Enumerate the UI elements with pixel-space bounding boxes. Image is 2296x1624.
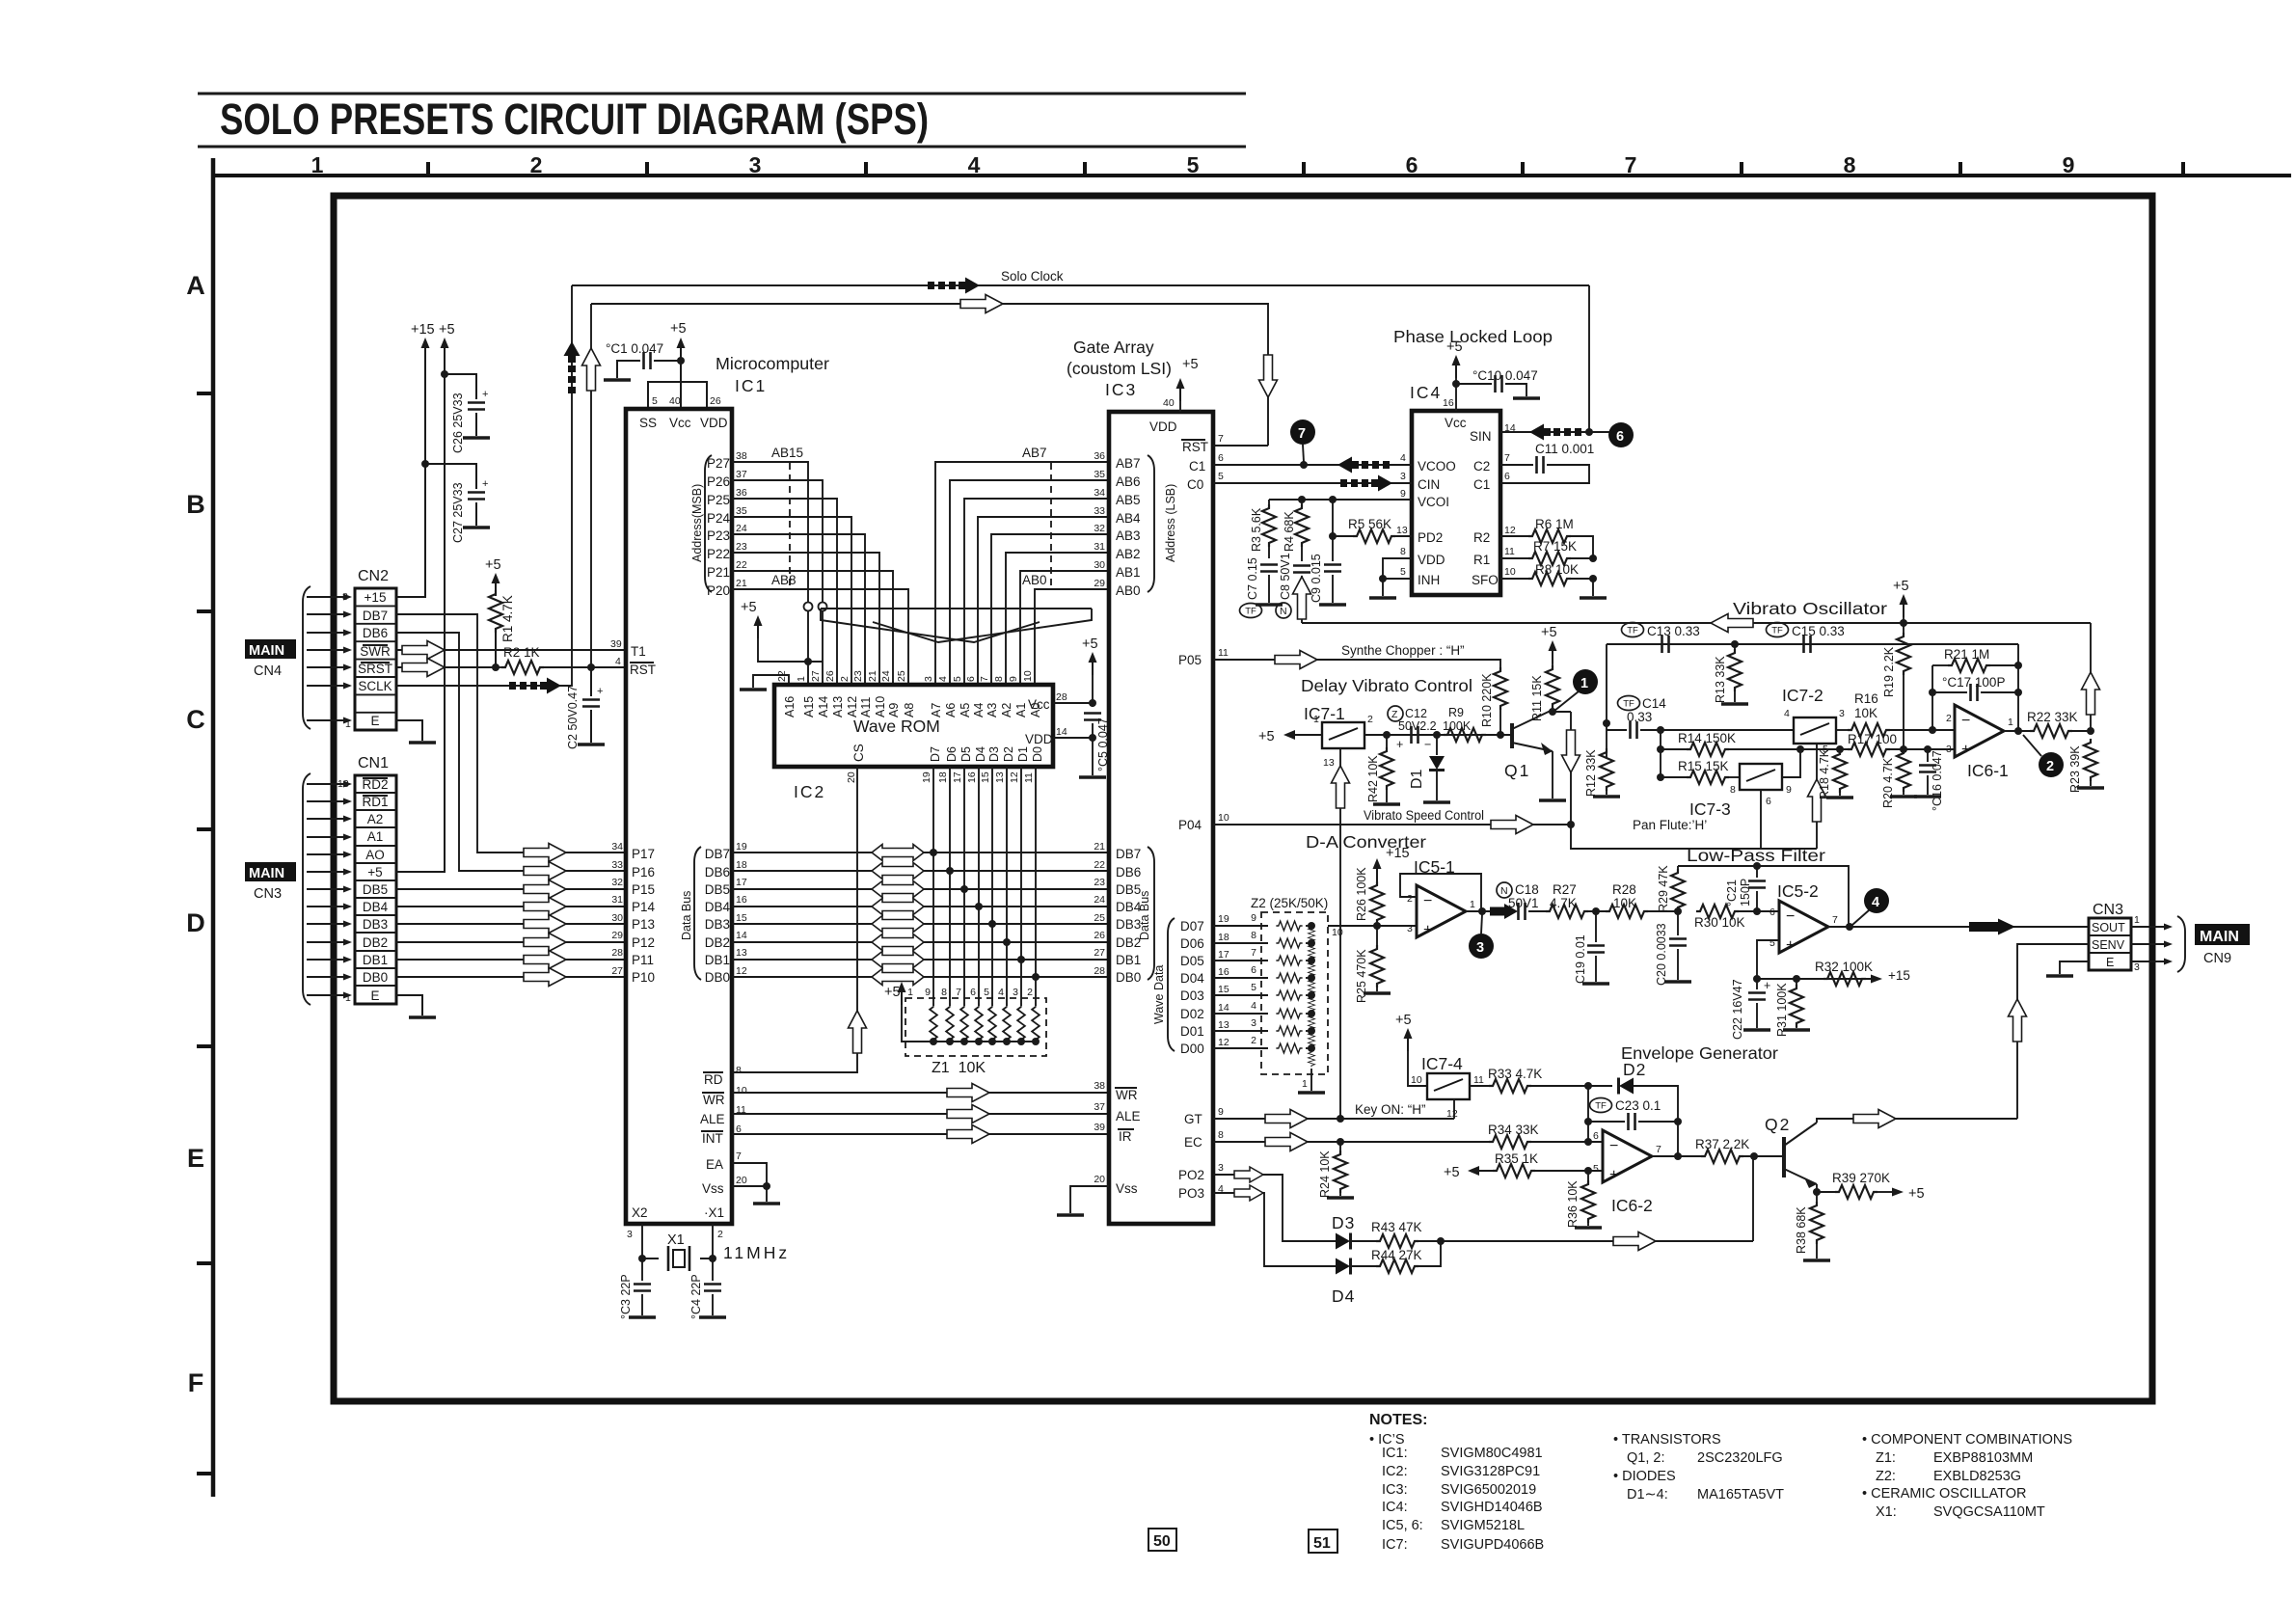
bracket around IC3 DB labels: [1148, 847, 1154, 980]
svg-text:5: 5: [1400, 566, 1406, 578]
MAIN CN3 tag: [245, 862, 296, 881]
left border tick marks: [197, 393, 213, 1474]
bold dashed arrow on solo clock: [928, 278, 980, 294]
svg-text:CN4: CN4: [254, 663, 282, 679]
capacitor C4 22P: [712, 1259, 714, 1281]
svg-text:26: 26: [710, 395, 721, 407]
svg-text:A: A: [186, 271, 205, 300]
svg-text:51: 51: [1313, 1535, 1331, 1552]
svg-text:P10: P10: [632, 970, 655, 985]
svg-text:2SC2320LFG: 2SC2320LFG: [1697, 1450, 1783, 1466]
crystal X1: [668, 1246, 689, 1271]
svg-text:6: 6: [965, 676, 977, 682]
svg-text:C15 0.33: C15 0.33: [1792, 624, 1845, 638]
svg-text:D02: D02: [1180, 1007, 1204, 1021]
svg-text:DB5: DB5: [363, 882, 388, 897]
svg-text:6: 6: [1406, 152, 1418, 177]
SENV return column: [2017, 944, 2089, 1119]
Q2 collector wire to SENV column: [1817, 1119, 2017, 1123]
svg-text:+: +: [1764, 979, 1770, 992]
low-pass feedback top wire: [1678, 866, 1849, 927]
svg-text:11: 11: [1218, 647, 1229, 659]
svg-text:35: 35: [736, 505, 747, 517]
IC3 body: [1109, 412, 1213, 1224]
svg-text:+: +: [482, 389, 488, 400]
svg-text:P24: P24: [707, 511, 731, 526]
svg-text:4: 4: [937, 676, 949, 682]
N mark C18: [1497, 882, 1512, 898]
wire RST line up to shared reset rail: [590, 304, 592, 667]
open circle jumpers on A15/A14 columns: [804, 603, 813, 611]
svg-text:RD1: RD1: [362, 795, 388, 809]
hollow arrow on P05 line: [1275, 651, 1317, 669]
svg-text:DB4: DB4: [705, 900, 731, 914]
svg-text:DB0: DB0: [363, 970, 388, 985]
wire ALE line IC1-IC3: [732, 1113, 1109, 1115]
svg-text:9: 9: [2063, 152, 2075, 177]
EA/Vss tie-off wires: [732, 1163, 767, 1202]
ROM bottom pin labels D7-D0: [929, 746, 1044, 762]
svg-text:R16: R16: [1854, 691, 1878, 706]
CN3 connector box: [2089, 918, 2131, 970]
svg-text:IC5-2: IC5-2: [1777, 881, 1819, 901]
svg-text:DB0: DB0: [1116, 970, 1141, 985]
svg-text:6: 6: [1769, 907, 1775, 918]
resistor R12 33K: [1600, 748, 1613, 791]
svg-text:6: 6: [1593, 1130, 1599, 1142]
svg-text:23: 23: [736, 541, 747, 553]
svg-text:15: 15: [1218, 984, 1229, 995]
wire X2 to crystal: [642, 1224, 659, 1259]
wire IC7-1 pin2 to Q1 base: [1364, 734, 1512, 736]
svg-text:R36 10K: R36 10K: [1566, 1180, 1580, 1228]
page number 50: [1148, 1529, 1176, 1551]
svg-text:R9: R9: [1448, 706, 1464, 719]
resistor R1 4.7K: [495, 590, 497, 594]
svg-text:11: 11: [1473, 1074, 1484, 1086]
svg-text:°C4 22P: °C4 22P: [689, 1274, 703, 1319]
svg-text:−: −: [1961, 713, 1970, 729]
svg-text:°C16 0.047: °C16 0.047: [1931, 750, 1944, 811]
svg-text:D06: D06: [1180, 936, 1204, 951]
svg-text:34: 34: [1094, 487, 1105, 499]
CN2 left bracket: [303, 586, 311, 729]
solo clock rail drop to SIN: [1588, 285, 1590, 432]
svg-text:+: +: [1609, 1167, 1618, 1183]
svg-text:5: 5: [984, 987, 989, 998]
svg-text:DB6: DB6: [705, 865, 730, 880]
svg-text:Delay Vibrato Control: Delay Vibrato Control: [1301, 676, 1472, 695]
svg-text:DB1: DB1: [363, 953, 388, 967]
svg-text:SENV: SENV: [2092, 938, 2125, 952]
svg-text:37: 37: [1094, 1101, 1105, 1113]
svg-text:IC2: IC2: [794, 782, 825, 801]
svg-text:VDD: VDD: [1418, 553, 1445, 567]
svg-text:16: 16: [1218, 966, 1229, 978]
wire vibrato feedback top line: [1302, 622, 2091, 624]
svg-text:Z2:: Z2:: [1876, 1469, 1896, 1484]
diode D1: [1436, 735, 1438, 755]
svg-text:PO2: PO2: [1178, 1168, 1204, 1182]
svg-text:SVIGM80C4981: SVIGM80C4981: [1441, 1446, 1543, 1461]
svg-text:T1: T1: [631, 644, 646, 659]
capacitor C9 0.015: [1324, 565, 1341, 572]
svg-text:NOTES:: NOTES:: [1369, 1412, 1427, 1428]
svg-text:C14: C14: [1642, 696, 1666, 711]
svg-text:7: 7: [1832, 914, 1838, 926]
svg-text:A1: A1: [1014, 703, 1028, 717]
svg-text:38: 38: [1094, 1080, 1105, 1092]
svg-text:4: 4: [998, 987, 1004, 998]
capacitor C27 25V33: [425, 464, 476, 489]
hollow up arrow on CS column: [849, 1011, 867, 1053]
bold dashed arrow into SIN: [1529, 424, 1581, 441]
analog switch IC7-1: [1322, 722, 1364, 748]
Z2 pin numbers left: [1251, 912, 1256, 1046]
+5 power arrow for R1: [492, 573, 500, 596]
svg-text:+: +: [1961, 742, 1970, 758]
svg-text:−: −: [1424, 738, 1431, 751]
feedback column right: [2017, 644, 2019, 731]
svg-text:X2: X2: [632, 1205, 648, 1220]
svg-text:IR: IR: [1119, 1129, 1132, 1144]
svg-text:R43 47K: R43 47K: [1371, 1220, 1422, 1234]
svg-text:+5: +5: [670, 321, 687, 337]
svg-text:7: 7: [956, 987, 961, 998]
svg-text:C20 0.0033: C20 0.0033: [1655, 923, 1668, 986]
hollow arrow on P02: [1234, 1167, 1263, 1182]
svg-text:°C10 0.047: °C10 0.047: [1472, 368, 1538, 383]
svg-text:R20 4.7K: R20 4.7K: [1881, 757, 1895, 808]
svg-text:+5: +5: [439, 322, 455, 338]
Z1 pin numbers: [907, 987, 1033, 998]
svg-text:CN1: CN1: [358, 755, 389, 771]
svg-text:6: 6: [1251, 964, 1256, 976]
svg-text:3: 3: [1251, 1017, 1256, 1029]
svg-text:IC5, 6:: IC5, 6:: [1382, 1518, 1423, 1533]
svg-text:C9 0.015: C9 0.015: [1310, 554, 1323, 603]
svg-text:18: 18: [937, 771, 949, 783]
svg-text:6: 6: [1218, 452, 1224, 464]
svg-text:7: 7: [1251, 947, 1256, 959]
svg-text:19: 19: [921, 771, 932, 783]
svg-text:IC1: IC1: [735, 376, 767, 395]
svg-text:3: 3: [2134, 961, 2140, 973]
svg-text:D6: D6: [945, 746, 959, 762]
op-amp IC6-2: [1603, 1130, 1652, 1182]
svg-text:R44 27K: R44 27K: [1371, 1248, 1422, 1262]
op-amp supply bus over IC1 top: [648, 382, 707, 409]
svg-text:36: 36: [736, 487, 747, 499]
svg-text:+5: +5: [1446, 339, 1463, 355]
svg-text:+5: +5: [367, 865, 382, 880]
analog switch IC7-3: [1740, 764, 1782, 790]
hollow arrows on WR/ALE/IR lines: [947, 1084, 989, 1102]
IC1 body: [626, 409, 732, 1224]
node R10 junction: [1497, 731, 1504, 739]
svg-text:1: 1: [2134, 914, 2140, 926]
svg-text:IC7-4: IC7-4: [1421, 1054, 1463, 1073]
svg-text:R19 2.2K: R19 2.2K: [1882, 646, 1896, 697]
svg-text:33: 33: [611, 859, 623, 871]
svg-text:2: 2: [1251, 1035, 1256, 1046]
resistor network Z2 dashed box: [1261, 912, 1328, 1074]
svg-text:8: 8: [1251, 930, 1256, 941]
wire switch ladder column: [1660, 730, 1661, 777]
capacitor C3 22P: [641, 1259, 643, 1281]
svg-text:MAIN: MAIN: [249, 866, 284, 881]
svg-text:17: 17: [952, 771, 963, 783]
svg-text:A2: A2: [1000, 703, 1013, 717]
svg-text:18: 18: [736, 859, 747, 871]
svg-text:D03: D03: [1180, 988, 1204, 1003]
Z2 pin1 ground: [1310, 1069, 1312, 1091]
R19/R20 bias column: [1903, 623, 1904, 633]
capacitor C19 0.01: [1595, 911, 1597, 942]
svg-text:2: 2: [839, 676, 851, 682]
svg-text:5: 5: [1593, 1163, 1599, 1175]
svg-text:R24 10K: R24 10K: [1318, 1150, 1332, 1198]
svg-text:Gate Array: Gate Array: [1073, 338, 1154, 357]
Vss ground wire: [1070, 1186, 1109, 1213]
svg-text:IC2:: IC2:: [1382, 1464, 1408, 1479]
svg-text:AB8: AB8: [771, 573, 797, 587]
svg-text:R42 10K: R42 10K: [1366, 755, 1380, 802]
svg-text:7: 7: [1298, 426, 1306, 442]
svg-text:3: 3: [749, 152, 762, 177]
bold dashed arrow toward IC3 on C1 line: [1337, 457, 1390, 474]
svg-text:AB0: AB0: [1116, 583, 1141, 598]
svg-text:D4: D4: [974, 746, 987, 762]
svg-text:R14 150K: R14 150K: [1678, 731, 1736, 745]
svg-text:°C21: °C21: [1725, 880, 1739, 907]
svg-text:PD2: PD2: [1418, 530, 1443, 545]
svg-text:Key ON: “H”: Key ON: “H”: [1355, 1102, 1426, 1117]
bracket right of CN3 arrows: [2177, 916, 2185, 972]
bus crossover funnel: [821, 608, 1040, 609]
svg-text:26: 26: [824, 670, 836, 682]
svg-text:P21: P21: [707, 565, 730, 580]
wires P27-P20 staircase to ROM A15-A8: [732, 462, 808, 685]
wire INT-IR line IC1-IC3: [732, 1133, 1109, 1135]
title top rule: [198, 93, 1246, 95]
svg-text:VCOO: VCOO: [1418, 459, 1456, 474]
svg-text:5: 5: [1769, 937, 1775, 949]
svg-text:SVQGCSA110MT: SVQGCSA110MT: [1933, 1504, 2045, 1520]
hollow down arrow into IC3 RST: [1259, 355, 1278, 397]
node C2 junction on RST line: [587, 663, 595, 671]
svg-text:D00: D00: [1180, 1042, 1204, 1056]
svg-text:AO: AO: [365, 848, 385, 862]
resistor R26 100K: [1370, 881, 1384, 924]
svg-text:19: 19: [736, 841, 747, 853]
svg-text:20: 20: [1094, 1174, 1105, 1185]
svg-text:29: 29: [611, 930, 623, 941]
svg-text:P14: P14: [632, 900, 656, 914]
svg-text:CIN: CIN: [1418, 477, 1440, 492]
node D1 junction: [1433, 731, 1441, 739]
IC3 RST stub wire: [1213, 445, 1268, 447]
svg-text:C2 50V0.47: C2 50V0.47: [566, 686, 580, 749]
svg-text:8: 8: [736, 1065, 742, 1076]
svg-text:DB1: DB1: [705, 953, 730, 967]
svg-text:°C1 0.047: °C1 0.047: [606, 341, 663, 356]
svg-text:−: −: [1423, 893, 1432, 909]
ROM top pin labels A16-A0: [783, 696, 1042, 717]
Q1 collector node: [1553, 710, 1571, 712]
CN1 row labels: [362, 777, 388, 1003]
svg-text:DB4: DB4: [363, 900, 389, 914]
svg-text:Vcc: Vcc: [1028, 697, 1050, 712]
op-amp IC6-1: [1955, 705, 2004, 757]
svg-text:A7: A7: [930, 703, 943, 717]
svg-text:+5: +5: [1258, 729, 1275, 744]
svg-text:DB0: DB0: [705, 970, 730, 985]
IC6-2 inverting column: [1587, 1086, 1589, 1142]
svg-text:Vibrato Oscillator: Vibrato Oscillator: [1733, 599, 1887, 618]
node crystal left: [638, 1255, 646, 1262]
svg-text:DB7: DB7: [363, 609, 388, 623]
Z1 resistors: [930, 1003, 937, 1043]
MAIN CN4 tag: [245, 639, 296, 659]
hollow up arrow below C8: [1293, 577, 1311, 619]
svg-text:IC3: IC3: [1105, 380, 1137, 399]
overlines for SWR / SRST: [363, 644, 388, 646]
svg-text:12: 12: [1504, 525, 1516, 536]
svg-text:RD: RD: [704, 1072, 723, 1087]
wire VCOI line: [1269, 499, 1412, 501]
svg-text:34: 34: [611, 841, 623, 853]
svg-text:CS: CS: [851, 744, 866, 762]
overlines for RD2 / RD1: [363, 777, 388, 779]
svg-text:Low-Pass Filter: Low-Pass Filter: [1687, 846, 1825, 865]
svg-text:4: 4: [1784, 708, 1790, 719]
svg-text:AB1: AB1: [1116, 565, 1141, 580]
svg-text:IC6-2: IC6-2: [1611, 1196, 1653, 1215]
hollow up arrow on reset rail: [582, 348, 601, 391]
svg-text:(coustom LSI): (coustom LSI): [1067, 359, 1172, 378]
wire ROM CS column to RD line: [732, 767, 857, 1072]
svg-text:CN9: CN9: [2203, 951, 2231, 966]
svg-text:P05: P05: [1178, 653, 1202, 667]
svg-text:4: 4: [1872, 895, 1879, 910]
svg-text:D0: D0: [1031, 746, 1044, 762]
IC5-1 output node: [1466, 910, 1515, 912]
svg-text:5: 5: [1251, 982, 1256, 993]
transistor Q1: [1510, 723, 1514, 748]
svg-text:28: 28: [1094, 965, 1105, 977]
svg-text:27: 27: [611, 965, 623, 977]
svg-text:EXBLD8253G: EXBLD8253G: [1933, 1469, 2021, 1484]
svg-text:2: 2: [1407, 893, 1413, 905]
svg-text:R2 1K: R2 1K: [503, 645, 540, 660]
resistor R4 68K: [1301, 500, 1303, 504]
svg-text:A1: A1: [367, 829, 384, 844]
svg-text:Address(MSB): Address(MSB): [690, 484, 704, 562]
svg-text:A9: A9: [887, 703, 901, 717]
svg-text:3: 3: [1407, 923, 1413, 934]
svg-text:22: 22: [736, 559, 747, 571]
svg-text:14: 14: [1218, 1002, 1229, 1014]
TF mark C23: [1590, 1098, 1612, 1113]
svg-text:8: 8: [1730, 784, 1736, 796]
svg-text:MA165TA5VT: MA165TA5VT: [1697, 1487, 1784, 1502]
Z1 common bus: [916, 1041, 1036, 1042]
Z2 ladder horizontal resistors: [1276, 921, 1302, 1053]
node C27 tap: [421, 460, 429, 468]
svg-text:SVIGUPD4066B: SVIGUPD4066B: [1441, 1537, 1544, 1553]
svg-text:P11: P11: [632, 953, 654, 967]
svg-text:17: 17: [736, 877, 747, 888]
svg-text:RD2: RD2: [362, 777, 388, 792]
svg-text:P04: P04: [1178, 818, 1202, 832]
hollow arrow on SWR line: [402, 641, 445, 660]
svg-text:R3 5.6K: R3 5.6K: [1250, 507, 1263, 552]
resistor R24 10K: [1337, 1138, 1344, 1146]
svg-text:R13 33K: R13 33K: [1714, 656, 1727, 703]
svg-text:°C3 22P: °C3 22P: [619, 1274, 633, 1319]
CN1 connector box: [355, 775, 396, 1004]
svg-text:5: 5: [652, 395, 658, 407]
svg-text:Synthe Chopper : “H”: Synthe Chopper : “H”: [1341, 643, 1465, 658]
svg-text:32: 32: [611, 877, 623, 888]
title bottom rule: [198, 146, 1246, 149]
hollow arrow on envelope feed line: [1613, 1232, 1656, 1251]
svg-text:8: 8: [941, 987, 947, 998]
svg-text:35: 35: [1094, 469, 1105, 480]
svg-text:1: 1: [1580, 676, 1588, 691]
wire IC3 C1 to VCOO: [1213, 464, 1412, 466]
svg-text:28: 28: [611, 947, 623, 959]
svg-text:13: 13: [994, 771, 1006, 783]
svg-text:16: 16: [736, 894, 747, 906]
svg-text:16: 16: [966, 771, 978, 783]
wire SWR row to IC1 T1: [396, 649, 625, 651]
ROM bottom pin numbers: [921, 771, 1035, 783]
svg-text:SFO: SFO: [1472, 573, 1499, 587]
svg-text:25: 25: [1094, 912, 1105, 924]
ruler grid numbers 1-9: [311, 152, 2075, 177]
svg-text:+5: +5: [1182, 357, 1199, 372]
svg-text:Q1, 2:: Q1, 2:: [1627, 1450, 1665, 1466]
svg-text:D: D: [186, 908, 205, 937]
svg-text:SVIGM5218L: SVIGM5218L: [1441, 1518, 1525, 1533]
IC6-1 output wire: [2004, 730, 2035, 732]
svg-text:GT: GT: [1184, 1112, 1202, 1126]
svg-text:P15: P15: [632, 882, 655, 897]
hollow arrow on GT line: [1265, 1110, 1308, 1128]
solid arrow after IC5-1: [1490, 904, 1518, 919]
svg-text:38: 38: [736, 450, 747, 462]
node R1/SRST junction: [492, 663, 500, 671]
svg-text:C13 0.33: C13 0.33: [1647, 624, 1700, 638]
IC7-3 pin9 wire up to R14 line: [1782, 749, 1800, 777]
Z2 ladder vertical chain: [1306, 922, 1315, 1067]
svg-text:IC7-1: IC7-1: [1304, 704, 1345, 723]
node feedback column join: [1929, 726, 1936, 734]
CN2 connector box: [355, 588, 396, 730]
resistor R3 5.6K: [1262, 504, 1276, 547]
svg-text:C1: C1: [1473, 477, 1490, 492]
wires IC3 D07-D00 to Z2: [1213, 926, 1268, 1048]
svg-text:INT: INT: [702, 1131, 723, 1146]
svg-text:C7 0.15: C7 0.15: [1246, 557, 1259, 600]
svg-text:30: 30: [1094, 559, 1105, 571]
wires CN1 DB5-DB0 rows to IC1 P15-P10: [396, 889, 625, 977]
svg-text:DB6: DB6: [363, 626, 388, 640]
svg-text:+5: +5: [1541, 625, 1557, 640]
wire +15 rail down to CN2 +15 row: [396, 359, 425, 597]
